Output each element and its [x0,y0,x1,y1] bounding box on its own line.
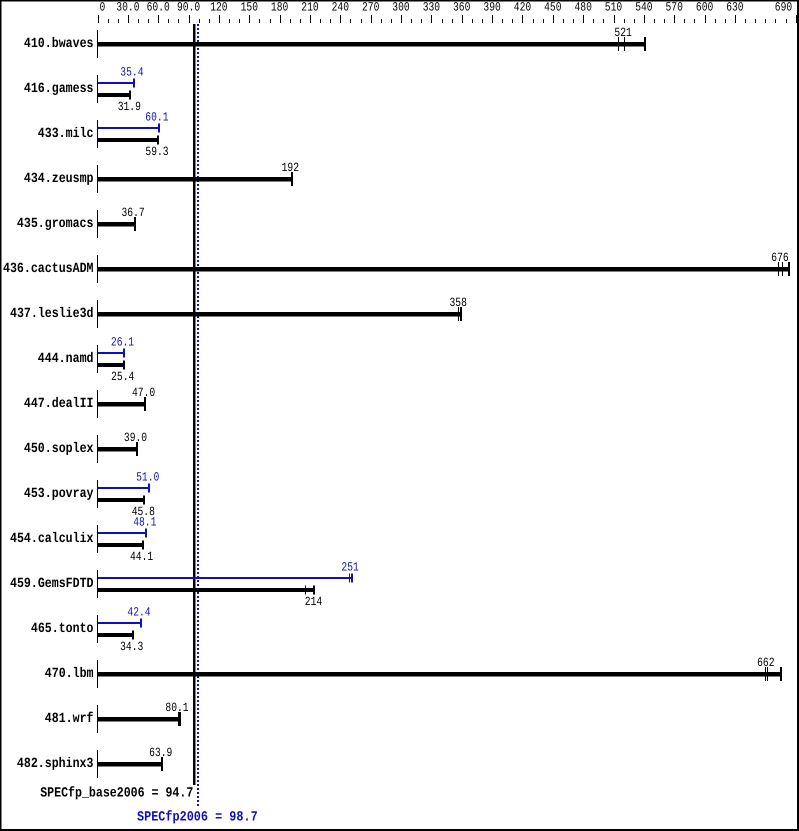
svg-text:270: 270 [362,1,379,15]
svg-text:300: 300 [392,1,409,15]
svg-text:SPECfp2006 = 98.7: SPECfp2006 = 98.7 [137,810,258,826]
svg-text:521: 521 [614,26,631,40]
svg-text:465.tonto: 465.tonto [31,621,94,637]
svg-text:60.0: 60.0 [147,1,170,15]
svg-text:450.soplex: 450.soplex [24,441,94,457]
svg-text:360: 360 [453,1,470,15]
svg-text:410.bwaves: 410.bwaves [24,36,94,52]
svg-text:63.9: 63.9 [149,746,172,760]
svg-text:630: 630 [726,1,743,15]
svg-text:120: 120 [210,1,227,15]
svg-text:42.4: 42.4 [127,606,150,620]
svg-text:676: 676 [771,251,788,265]
svg-text:90.0: 90.0 [177,1,200,15]
svg-text:39.0: 39.0 [124,431,147,445]
svg-text:481.wrf: 481.wrf [45,711,94,727]
svg-text:690: 690 [775,1,792,15]
svg-text:662: 662 [757,656,774,670]
svg-text:600: 600 [696,1,713,15]
svg-text:180: 180 [271,1,288,15]
svg-text:416.gamess: 416.gamess [24,81,94,97]
svg-text:192: 192 [282,161,299,175]
svg-text:358: 358 [450,296,467,310]
svg-text:251: 251 [341,561,358,575]
svg-text:26.1: 26.1 [111,336,134,350]
svg-text:36.7: 36.7 [122,206,145,220]
svg-text:470.lbm: 470.lbm [45,666,94,682]
svg-text:240: 240 [332,1,349,15]
svg-text:482.sphinx3: 482.sphinx3 [17,756,94,772]
svg-text:47.0: 47.0 [132,386,155,400]
svg-text:453.povray: 453.povray [24,486,94,502]
svg-text:540: 540 [635,1,652,15]
svg-text:0: 0 [100,1,106,15]
svg-text:150: 150 [241,1,258,15]
svg-text:30.0: 30.0 [116,1,139,15]
svg-text:435.gromacs: 435.gromacs [17,216,94,232]
svg-text:25.4: 25.4 [111,370,134,384]
svg-text:SPECfp_base2006 = 94.7: SPECfp_base2006 = 94.7 [40,786,193,802]
svg-text:510: 510 [605,1,622,15]
svg-text:433.milc: 433.milc [38,126,94,142]
svg-text:454.calculix: 454.calculix [10,531,94,547]
svg-text:420: 420 [514,1,531,15]
svg-text:447.dealII: 447.dealII [24,396,94,412]
svg-text:436.cactusADM: 436.cactusADM [3,261,94,277]
svg-text:450: 450 [544,1,561,15]
svg-text:51.0: 51.0 [136,471,159,485]
svg-text:210: 210 [301,1,318,15]
svg-text:459.GemsFDTD: 459.GemsFDTD [10,576,94,592]
svg-text:35.4: 35.4 [120,66,143,80]
svg-text:34.3: 34.3 [120,640,143,654]
svg-text:480: 480 [575,1,592,15]
svg-text:80.1: 80.1 [165,701,188,715]
svg-text:330: 330 [423,1,440,15]
svg-text:434.zeusmp: 434.zeusmp [24,171,94,187]
svg-text:48.1: 48.1 [133,516,156,530]
svg-text:59.3: 59.3 [145,145,168,159]
svg-text:437.leslie3d: 437.leslie3d [10,306,94,322]
svg-text:31.9: 31.9 [118,100,141,114]
svg-text:570: 570 [666,1,683,15]
svg-text:390: 390 [483,1,500,15]
svg-text:444.namd: 444.namd [38,351,94,367]
svg-text:214: 214 [305,595,322,609]
svg-text:44.1: 44.1 [130,550,153,564]
svg-text:60.1: 60.1 [145,111,168,125]
